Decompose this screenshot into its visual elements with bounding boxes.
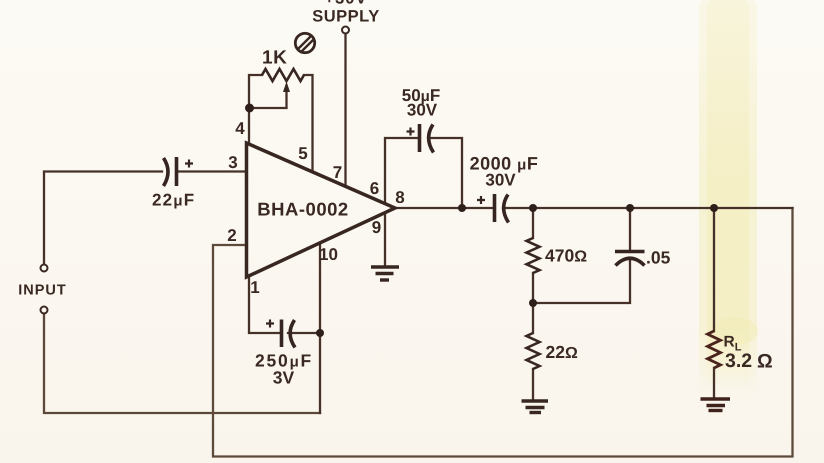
junction dot .05 top <box>626 204 634 212</box>
wire +30V supply to pin 7 <box>344 34 346 187</box>
svg-text:Ω: Ω <box>757 351 773 373</box>
svg-text:.05: .05 <box>646 248 671 268</box>
svg-text:30V: 30V <box>407 101 438 120</box>
wire pin 9 down to ground <box>384 213 386 266</box>
wire RL leads <box>713 208 715 331</box>
highlighter band <box>699 0 757 400</box>
highlighter blotch near RL <box>712 317 758 345</box>
svg-text:10: 10 <box>319 245 338 264</box>
wire pin 1 down to 250uF <box>249 278 280 333</box>
wire 1K right end down to pin 5 <box>304 75 313 172</box>
wire 470 ohm leads <box>532 208 534 238</box>
svg-text:6: 6 <box>370 179 379 198</box>
svg-text:4: 4 <box>235 119 245 138</box>
junction dot 50uF/output <box>458 204 466 212</box>
svg-text:22Ω: 22Ω <box>546 342 578 362</box>
junction dot RL top <box>710 204 718 212</box>
wire 22uF to pin 3 <box>177 170 246 172</box>
junction dot 470 bottom <box>529 299 537 307</box>
svg-text:+30V: +30V <box>325 0 368 8</box>
wire 250uF right plate to junction <box>288 332 320 334</box>
wire pin 2 feedback loop <box>213 208 793 457</box>
wire pot wiper <box>249 90 287 108</box>
capacitor C4 .05 <box>615 252 645 266</box>
svg-text:SUPPLY: SUPPLY <box>312 8 380 26</box>
wire 22 ohm leads <box>532 303 534 333</box>
supply terminal <box>342 27 349 34</box>
wire 50uF to output junction <box>431 138 462 208</box>
junction dot pot/pin4 <box>245 104 254 113</box>
resistor RL 3.2 ohm <box>708 331 721 368</box>
pot wiper arrow <box>283 82 290 93</box>
op-amp U1 BHA-0002 triangle <box>247 143 396 277</box>
svg-text:470Ω: 470Ω <box>545 246 587 266</box>
ground (pin 9) <box>371 267 399 280</box>
svg-text:1K: 1K <box>262 48 287 69</box>
junction dot 470 top <box>529 204 537 212</box>
svg-text:1: 1 <box>250 278 259 297</box>
svg-text:2: 2 <box>227 226 236 245</box>
svg-text:3: 3 <box>228 153 237 172</box>
input terminal bottom <box>41 307 48 314</box>
wire 2000uF to right rail <box>503 207 793 209</box>
capacitor C5 250uF <box>266 320 295 348</box>
wire 470 ohm bottom junction to .05 <box>533 258 630 303</box>
svg-text:7: 7 <box>333 163 342 182</box>
svg-text:22μF: 22μF <box>152 191 195 210</box>
svg-text:INPUT: INPUT <box>18 283 67 299</box>
potentiometer 1K zigzag <box>262 69 304 81</box>
capacitor C2 50uF <box>407 124 434 153</box>
svg-text:30V: 30V <box>485 171 516 190</box>
svg-text:BHA-0002: BHA-0002 <box>257 199 348 220</box>
wire output pin 8 to 2000uF <box>394 207 493 209</box>
svg-text:3V: 3V <box>273 368 295 388</box>
resistor R2 22 ohm <box>527 333 540 369</box>
wire pin 10 vertical <box>319 243 321 413</box>
ground (22 ohm) <box>522 401 549 413</box>
svg-text:3.2: 3.2 <box>725 350 752 372</box>
resistor R1 470 ohm <box>527 238 540 273</box>
input terminal top <box>41 265 48 272</box>
capacitor C1 22uF <box>164 157 194 186</box>
wire input top terminal to 22uF <box>44 172 162 265</box>
svg-text:5: 5 <box>298 144 307 163</box>
junction dot 250uF <box>316 329 324 337</box>
svg-text:9: 9 <box>372 218 381 237</box>
wire pin 6 to 50uF loop <box>385 138 417 204</box>
wire .05 top to output line <box>629 208 631 250</box>
wire input bottom terminal down and right to pin10 net <box>44 314 320 413</box>
svg-text:8: 8 <box>395 188 404 207</box>
highlighter band core <box>707 0 749 390</box>
ground (RL) <box>701 399 731 411</box>
wire pin 4 up to 1K pot <box>249 75 262 143</box>
capacitor C3 2000uF <box>477 194 509 223</box>
screwdriver adjust symbol <box>295 33 314 52</box>
